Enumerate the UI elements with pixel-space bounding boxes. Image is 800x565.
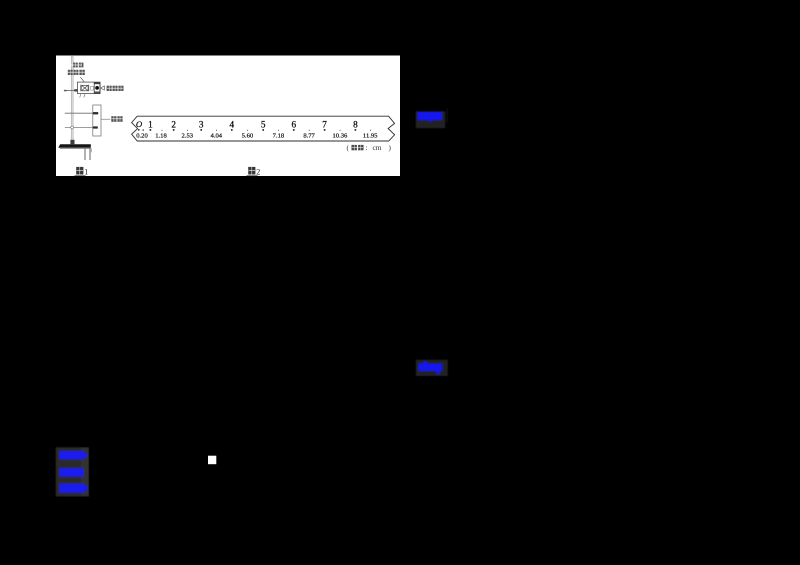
annotation highlight A (blue) — [418, 112, 442, 120]
svg-text:1: 1 — [148, 119, 153, 129]
tape outline with torn ends — [132, 116, 395, 141]
svg-text:5.60: 5.60 — [242, 133, 254, 140]
base lower edge — [60, 149, 91, 153]
paper tape ends below timer — [80, 94, 85, 98]
label 限位孔 — [107, 86, 124, 91]
units note (单位: cm) — [347, 143, 392, 152]
white figure panel — [56, 56, 400, 177]
svg-text:O: O — [136, 119, 143, 129]
annotation panel A (gray) — [416, 111, 445, 128]
white square mark — [208, 456, 216, 465]
arrow to limit hole — [101, 86, 105, 90]
blue text line 1 — [60, 451, 84, 459]
svg-text:1: 1 — [84, 167, 88, 176]
stand rod — [71, 57, 73, 145]
svg-text:7: 7 — [322, 119, 327, 129]
small middle rect in timer — [91, 86, 94, 90]
tape readings (cm) — [136, 133, 378, 140]
caption 图2 — [247, 167, 261, 177]
annotation blue text B — [418, 364, 442, 371]
lower clamp arm — [65, 126, 98, 129]
faint hairline right of panel A — [445, 109, 448, 123]
svg-text::: : — [366, 144, 368, 152]
annotation panel B (gray) — [416, 360, 448, 376]
bottom-left panel (gray) — [56, 447, 81, 496]
svg-text:8: 8 — [353, 119, 358, 129]
base legs — [85, 149, 91, 160]
svg-text:cm: cm — [373, 143, 382, 152]
svg-text:6: 6 — [292, 119, 297, 129]
tape dots (intermediate points) — [161, 130, 371, 131]
blue text line 2 — [60, 468, 84, 477]
timer body — [78, 82, 101, 94]
svg-text:4: 4 — [230, 119, 235, 129]
svg-text:2: 2 — [171, 119, 176, 129]
svg-text:3: 3 — [199, 119, 204, 129]
label 铜管 — [111, 116, 122, 122]
limit-hole block — [94, 83, 100, 94]
svg-text:2.53: 2.53 — [182, 133, 194, 140]
svg-text:2: 2 — [256, 167, 260, 176]
blue text line 3 — [60, 484, 85, 493]
caption 图1 — [75, 167, 89, 177]
svg-text:11.95: 11.95 — [363, 133, 378, 140]
rod foot block — [70, 140, 74, 144]
timer coil (bowtie) — [80, 85, 89, 91]
svg-text:8.77: 8.77 — [303, 133, 315, 140]
label 打点计时器 (timer label, 2 lines) — [66, 63, 85, 75]
svg-text:5: 5 — [261, 119, 266, 129]
svg-text:1.18: 1.18 — [155, 133, 167, 140]
stand base (top plate) — [58, 144, 91, 148]
upper clamp arm — [65, 112, 98, 114]
timer clamp arm — [64, 89, 78, 92]
svg-text:7.18: 7.18 — [273, 133, 285, 140]
tape dots (numbered points) — [138, 129, 356, 131]
point numbers 1-8 — [148, 119, 358, 129]
leader line from label to timer — [80, 77, 84, 82]
svg-text:4.04: 4.04 — [211, 133, 223, 140]
svg-text:10.36: 10.36 — [332, 133, 348, 140]
tube label line — [101, 118, 110, 120]
svg-text:0.20: 0.20 — [136, 133, 148, 140]
copper tube — [93, 105, 101, 136]
limit hole (black dot) — [95, 86, 99, 90]
